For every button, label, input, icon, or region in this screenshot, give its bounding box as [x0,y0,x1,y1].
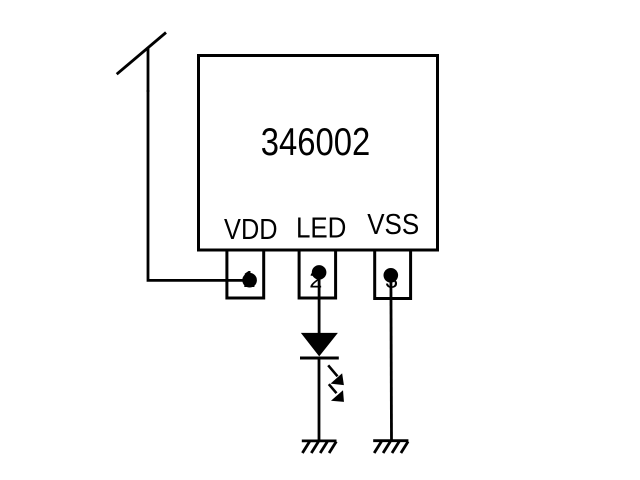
pin 3 box [375,250,411,299]
pin 1 box [227,250,264,298]
wire antenna to pin 1 [148,90,246,280]
wire pin 3 to ground [389,275,392,441]
pin 2 junction dot [312,265,327,280]
pin 3 junction dot [384,268,399,283]
antenna ANT [117,33,166,93]
svg-text:VDD: VDD [224,214,278,246]
ground GND2 (VSS) [373,441,408,453]
svg-text:346002: 346002 [261,121,371,164]
LED D1 [300,334,343,401]
pin 2 box [299,250,336,298]
svg-text:LED: LED [296,212,347,244]
pin 1 junction dot [242,273,257,288]
wire LED cathode to ground [318,357,321,441]
svg-text:VSS: VSS [367,209,419,241]
wire pin 2 to LED anode [318,272,321,335]
ground GND1 (LED return) [302,441,337,453]
IC U1 body [199,56,438,251]
